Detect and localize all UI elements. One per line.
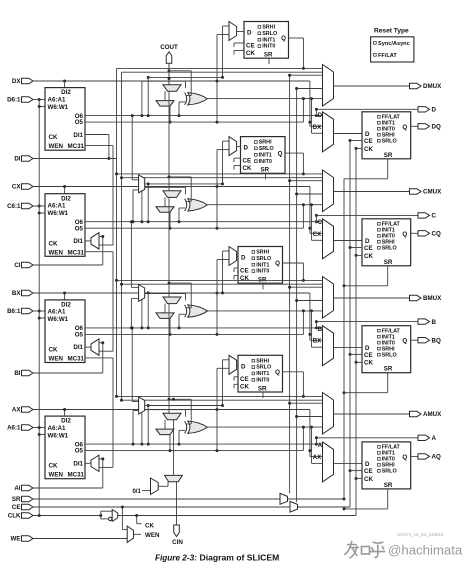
- svg-text:INIT0: INIT0: [259, 159, 272, 165]
- wire DX bypass net: [33, 80, 323, 127]
- mux DI1MUX C: [91, 233, 99, 249]
- mux F7BMUX: [139, 175, 145, 193]
- svg-text:INIT1: INIT1: [262, 37, 275, 43]
- svg-text:INIT1: INIT1: [256, 262, 269, 268]
- LUT A (A6LUT): [45, 416, 85, 479]
- label CX on FFMUX input: [313, 232, 321, 238]
- legend Reset Type: [371, 28, 414, 63]
- svg-text:Q: Q: [402, 231, 407, 238]
- svg-text:CK: CK: [243, 165, 252, 172]
- svg-text:SRHI: SRHI: [259, 140, 272, 146]
- input pin CX: [12, 184, 33, 191]
- svg-text:SR: SR: [384, 152, 393, 159]
- LUT C (A6LUT): [45, 194, 85, 257]
- wire feedback risers: [115, 68, 123, 401]
- svg-text:CK: CK: [246, 50, 255, 57]
- LUT B (A6LUT): [45, 300, 85, 363]
- wire O5 net slice B: [85, 311, 311, 336]
- svg-text:Q: Q: [281, 35, 286, 42]
- svg-text:DX: DX: [12, 78, 21, 85]
- svg-text:MC31: MC31: [67, 143, 84, 150]
- label BX on FFMUX input: [313, 339, 321, 345]
- svg-text:AX: AX: [12, 407, 21, 414]
- input pin CLK: [8, 513, 33, 520]
- wire O6 net slice C: [85, 214, 418, 223]
- wire AFFMUX to FF D input: [334, 463, 363, 465]
- svg-text:MC31: MC31: [67, 249, 84, 256]
- mux BOUTMUX: [323, 277, 334, 319]
- svg-text:D: D: [365, 461, 370, 468]
- input pin CE: [12, 504, 33, 511]
- carry DI mux A: [156, 420, 174, 451]
- svg-text:D: D: [432, 107, 437, 114]
- svg-text:C6:1: C6:1: [7, 203, 21, 210]
- CIN pin: [172, 482, 183, 546]
- svg-text:0/1: 0/1: [132, 489, 141, 495]
- svg-text:D: D: [247, 30, 252, 37]
- xor gate XORCY C: [185, 199, 208, 211]
- svg-text:D: D: [318, 113, 323, 119]
- svg-text:D6:1: D6:1: [7, 97, 21, 104]
- mux F8MUX: [139, 285, 145, 302]
- wire F8MUX connections: [130, 220, 148, 329]
- wire F7AMUX connections: [131, 326, 149, 445]
- svg-text:BI: BI: [14, 370, 20, 377]
- flip-flop FF B2 (storage element): [238, 247, 283, 284]
- svg-text:DI2: DI2: [61, 302, 71, 309]
- svg-text:DX: DX: [313, 125, 321, 131]
- svg-text:B: B: [318, 327, 323, 333]
- svg-text:W6:W1: W6:W1: [48, 104, 69, 111]
- wire storage element A2 connections: [217, 355, 305, 450]
- svg-text:Sync/Async: Sync/Async: [378, 41, 410, 47]
- wire feedback lines slice B: [117, 280, 323, 284]
- svg-text:COUT: COUT: [160, 44, 178, 51]
- svg-text:A: A: [432, 435, 437, 442]
- flip-flop DFF (FF/LAT): [362, 112, 411, 159]
- svg-text:INIT1: INIT1: [259, 152, 272, 158]
- svg-text:AX: AX: [313, 455, 321, 461]
- wire feedback lines slice C: [117, 174, 323, 178]
- input pin CI: [14, 262, 33, 269]
- svg-text:Q: Q: [402, 338, 407, 345]
- svg-text:D: D: [365, 238, 370, 245]
- wire BX bypass net: [33, 292, 323, 341]
- wire nested mux feed slice A: [310, 426, 323, 464]
- mux CYINIT 0/1: [132, 478, 168, 495]
- svg-text:B6:1: B6:1: [7, 308, 21, 315]
- svg-text:INIT0: INIT0: [262, 44, 275, 50]
- wire BFFMUX to FF D input: [334, 346, 363, 348]
- wire CFF connections: [343, 233, 419, 287]
- wire O6 net slice A: [85, 436, 418, 445]
- carry DI mux B: [156, 304, 174, 335]
- svg-text:SRLO: SRLO: [382, 245, 397, 251]
- svg-text:CK: CK: [364, 146, 373, 153]
- wire carry chain slice B: [142, 197, 323, 328]
- wire D6:1 to LUT inputs: [33, 100, 45, 107]
- input pin DX: [12, 78, 33, 85]
- input pin B6:1: [7, 308, 33, 315]
- svg-text:SRLO: SRLO: [259, 146, 274, 152]
- svg-text:CK: CK: [364, 360, 373, 367]
- wire COUTMUX output: [290, 181, 410, 194]
- output pins CMUX / C / CQ: [410, 189, 443, 238]
- wire O5 net slice A: [85, 427, 311, 452]
- svg-text:Q: Q: [402, 454, 407, 461]
- wire B6:1 to LUT inputs: [33, 311, 45, 318]
- wire BFF connections: [343, 340, 419, 394]
- wire storage element D2 connections: [217, 22, 305, 123]
- svg-text:CK: CK: [49, 240, 58, 247]
- output pins BMUX / B / BQ: [410, 295, 443, 344]
- svg-text:WE: WE: [11, 536, 21, 543]
- svg-text:SRLO: SRLO: [256, 256, 271, 262]
- wire feedback lines slice D: [117, 68, 323, 72]
- svg-text:CLK: CLK: [8, 513, 21, 520]
- svg-text:CMUX: CMUX: [423, 189, 442, 196]
- svg-text:CE: CE: [240, 376, 249, 383]
- svg-text:SRLO: SRLO: [382, 352, 397, 358]
- svg-text:SRLO: SRLO: [256, 365, 271, 371]
- wire DI1 mux inputs C: [33, 146, 113, 265]
- svg-text:CIN: CIN: [172, 539, 183, 546]
- wire AX bypass net: [33, 408, 323, 456]
- svg-text:SR: SR: [384, 482, 393, 489]
- input pin A6:1: [7, 425, 33, 432]
- svg-text:SR: SR: [12, 496, 21, 503]
- svg-text:CE: CE: [364, 138, 373, 145]
- svg-text:D: D: [244, 145, 249, 152]
- svg-text:BX: BX: [12, 290, 21, 297]
- svg-text:CE: CE: [243, 157, 252, 164]
- svg-text:MC31: MC31: [67, 472, 84, 479]
- mux COUTMUX: [323, 170, 334, 212]
- svg-text:SR: SR: [384, 259, 393, 266]
- flip-flop FF C2 (storage element): [241, 137, 286, 174]
- svg-text:Figure 2-3:: Figure 2-3:: [155, 554, 197, 563]
- svg-text:CK: CK: [49, 347, 58, 354]
- svg-text:CK: CK: [49, 134, 58, 141]
- carry mux MUXCY D: [163, 85, 181, 92]
- svg-text:O5: O5: [75, 119, 84, 126]
- svg-text:FF/LAT: FF/LAT: [378, 53, 397, 59]
- COUT pin: [160, 44, 178, 85]
- label AX on FFMUX input: [313, 455, 321, 461]
- wire DI1 mux inputs A: [33, 358, 113, 488]
- svg-text:Q: Q: [275, 369, 280, 376]
- mux DI1MUX A: [91, 455, 99, 471]
- svg-text:CE: CE: [364, 468, 373, 475]
- wire nested mux feed slice C: [310, 203, 323, 240]
- input pin BI: [14, 370, 33, 377]
- svg-text:B: B: [432, 319, 437, 326]
- svg-text:CE: CE: [364, 245, 373, 252]
- svg-text:SR: SR: [258, 385, 267, 392]
- svg-text:CI: CI: [14, 262, 20, 269]
- svg-text:INIT1: INIT1: [256, 371, 269, 377]
- svg-text:O5: O5: [75, 448, 84, 455]
- svg-text:@hachimata: @hachimata: [388, 543, 463, 558]
- flip-flop FF D2 (storage element): [244, 22, 289, 59]
- wire O5 net slice D: [85, 99, 311, 124]
- input pin AX: [12, 407, 33, 414]
- svg-text:AMUX: AMUX: [423, 411, 442, 418]
- svg-text:WEN: WEN: [49, 249, 64, 256]
- wire F7BMUX connections: [131, 114, 149, 223]
- wire A6:1 to LUT inputs: [33, 428, 45, 435]
- svg-text:DI2: DI2: [61, 195, 71, 202]
- wire storage element C2 connections: [217, 137, 305, 229]
- wire nested mux feed slice B: [310, 309, 323, 347]
- wire feedback lines slice A: [117, 396, 323, 400]
- mux DFFMUX: [318, 112, 334, 152]
- input pin WE: [11, 536, 33, 543]
- input pin DI: [14, 156, 33, 163]
- svg-text:DI1: DI1: [73, 132, 83, 139]
- SR gate mux: [280, 493, 288, 504]
- svg-text:DMUX: DMUX: [423, 83, 442, 90]
- carry mux MUXCY B: [163, 297, 181, 304]
- wire AFF connections: [343, 456, 419, 510]
- svg-text:UG474_c2_03_110510: UG474_c2_03_110510: [397, 532, 444, 537]
- svg-text:D: D: [365, 131, 370, 138]
- wire storage element B2 connections: [217, 247, 305, 335]
- wire carry chain slice A: [142, 304, 323, 445]
- output pins DMUX / D / DQ: [410, 83, 443, 130]
- svg-text:SRHI: SRHI: [262, 25, 275, 31]
- carry DI mux D: [156, 91, 174, 122]
- svg-text:DI1: DI1: [73, 344, 83, 351]
- wire CE riser (small FF column): [288, 74, 291, 494]
- svg-text:A6:A1: A6:A1: [48, 309, 66, 316]
- svg-text:BMUX: BMUX: [423, 295, 442, 302]
- wire CLK net: [33, 514, 102, 517]
- svg-text:DI1: DI1: [73, 238, 83, 245]
- input pin BX: [12, 290, 33, 297]
- svg-text:AQ: AQ: [432, 454, 441, 461]
- wire CE net: [33, 141, 350, 509]
- svg-text:Reset Type: Reset Type: [374, 28, 409, 35]
- svg-text:C: C: [432, 213, 437, 220]
- svg-text:D: D: [241, 363, 246, 370]
- xor gate XORCY A: [185, 421, 208, 433]
- svg-text:CE: CE: [246, 42, 255, 49]
- clock inverter mux: [101, 510, 118, 522]
- svg-text:SRLO: SRLO: [262, 31, 277, 37]
- mux AFFMUX: [318, 442, 334, 482]
- xor gate XORCY D: [185, 93, 208, 105]
- svg-text:Q: Q: [275, 260, 280, 267]
- wire O6 net slice B: [85, 320, 418, 329]
- mux F7AMUX: [139, 397, 145, 414]
- wire AOUTMUX output: [290, 403, 410, 416]
- svg-text:A6:A1: A6:A1: [48, 425, 66, 432]
- svg-text:DI: DI: [14, 156, 20, 163]
- carry init mux (CIN path): [165, 398, 183, 482]
- caption Figure 2-3: [155, 553, 279, 563]
- svg-text:CK: CK: [145, 523, 154, 530]
- input pin AI: [14, 485, 33, 492]
- wire O6 net slice D: [85, 108, 418, 117]
- wire carry chain slice D: [142, 63, 323, 115]
- mux BFFMUX: [318, 326, 334, 366]
- xor gate XORCY B: [185, 305, 208, 317]
- wire nested mux feed slice D: [310, 97, 323, 133]
- LUT D (A6LUT): [45, 88, 85, 151]
- svg-text:BX: BX: [313, 339, 321, 345]
- wire DFFMUX to FF D input: [334, 133, 363, 135]
- svg-text:DI2: DI2: [61, 89, 71, 96]
- svg-text:O5: O5: [75, 225, 84, 232]
- wire CK output of clock mux: [118, 148, 356, 529]
- svg-text:D: D: [365, 345, 370, 352]
- svg-text:CX: CX: [313, 232, 321, 238]
- svg-text:SR: SR: [264, 52, 273, 59]
- svg-text:W6:W1: W6:W1: [48, 316, 69, 323]
- mux CFFMUX: [318, 219, 334, 259]
- svg-text:INIT0: INIT0: [256, 269, 269, 275]
- svg-text:Q: Q: [402, 124, 407, 131]
- svg-text:WEN: WEN: [145, 532, 160, 539]
- input pin SR: [12, 496, 33, 503]
- wire left vertical bus (LUT clock/WE column): [38, 98, 41, 517]
- input pin D6:1: [7, 97, 33, 104]
- svg-text:CK: CK: [240, 384, 249, 391]
- flip-flop AFF (FF/LAT): [362, 442, 411, 489]
- svg-text:MC31: MC31: [67, 356, 84, 363]
- WEN mux: [33, 507, 160, 543]
- svg-text:CX: CX: [12, 184, 21, 191]
- carry DI mux C: [156, 197, 174, 228]
- svg-text:DQ: DQ: [432, 124, 441, 131]
- svg-text:A: A: [318, 443, 323, 449]
- svg-text:SRLO: SRLO: [382, 469, 397, 475]
- flip-flop BFF (FF/LAT): [362, 326, 411, 373]
- wire DFF connections: [344, 126, 418, 179]
- svg-text:SR: SR: [260, 167, 269, 174]
- svg-text:C: C: [318, 220, 323, 226]
- label DX on FFMUX input: [313, 125, 321, 131]
- svg-text:O5: O5: [75, 332, 84, 339]
- wire DI to LUT D DI1: [33, 135, 117, 161]
- svg-text:CK: CK: [49, 463, 58, 470]
- svg-text:CE: CE: [12, 504, 21, 511]
- svg-text:CQ: CQ: [432, 231, 441, 238]
- svg-text:W6:W1: W6:W1: [48, 432, 69, 439]
- wire BOUTMUX output: [290, 287, 410, 300]
- mux DOUTMUX: [323, 65, 334, 107]
- wire CX bypass net: [33, 185, 323, 233]
- svg-text:DI2: DI2: [61, 418, 71, 425]
- wire CK riser (small FF column): [295, 87, 298, 502]
- svg-text:SRHI: SRHI: [256, 250, 269, 256]
- svg-text:SRLO: SRLO: [382, 138, 397, 144]
- CE gate mux: [290, 501, 298, 512]
- wire DI1 mux inputs B: [33, 252, 113, 373]
- svg-text:SRHI: SRHI: [256, 358, 269, 364]
- wire DOUTMUX output: [290, 75, 410, 88]
- svg-text:CK: CK: [364, 253, 373, 260]
- mux AOUTMUX: [323, 393, 334, 435]
- svg-text:Q: Q: [278, 150, 283, 157]
- svg-text:A6:A1: A6:A1: [48, 96, 66, 103]
- wire carry chain slice C: [142, 91, 323, 221]
- mux DI1MUX B: [91, 339, 99, 355]
- flip-flop CFF (FF/LAT): [362, 219, 411, 266]
- svg-text:CE: CE: [240, 267, 249, 274]
- carry mux MUXCY A: [163, 413, 181, 420]
- svg-text:WEN: WEN: [49, 143, 64, 150]
- svg-text:AI: AI: [14, 485, 20, 492]
- carry mux MUXCY C: [163, 191, 181, 198]
- svg-text:D: D: [241, 255, 246, 262]
- wire SR net: [33, 179, 346, 501]
- wire C6:1 to LUT inputs: [33, 206, 45, 213]
- svg-text:W6:W1: W6:W1: [48, 210, 69, 217]
- svg-text:SR: SR: [384, 366, 393, 373]
- svg-text:INIT0: INIT0: [256, 378, 269, 384]
- svg-text:A6:1: A6:1: [7, 425, 21, 432]
- wire CFFMUX to FF D input: [334, 240, 363, 242]
- svg-text:CE: CE: [364, 352, 373, 359]
- svg-text:Diagram of SLICEM: Diagram of SLICEM: [200, 553, 280, 563]
- svg-text:WEN: WEN: [49, 472, 64, 479]
- svg-text:DI1: DI1: [73, 460, 83, 467]
- svg-text:BQ: BQ: [432, 337, 441, 344]
- watermark: [345, 541, 463, 558]
- input pin C6:1: [7, 203, 33, 210]
- document number: [397, 532, 444, 537]
- output pins AMUX / A / AQ: [410, 411, 443, 460]
- flip-flop FF A2 (storage element): [238, 355, 283, 392]
- svg-text:WEN: WEN: [49, 356, 64, 363]
- wire O5 net slice C: [85, 205, 311, 230]
- svg-text:A6:A1: A6:A1: [48, 203, 66, 210]
- svg-text:CK: CK: [364, 476, 373, 483]
